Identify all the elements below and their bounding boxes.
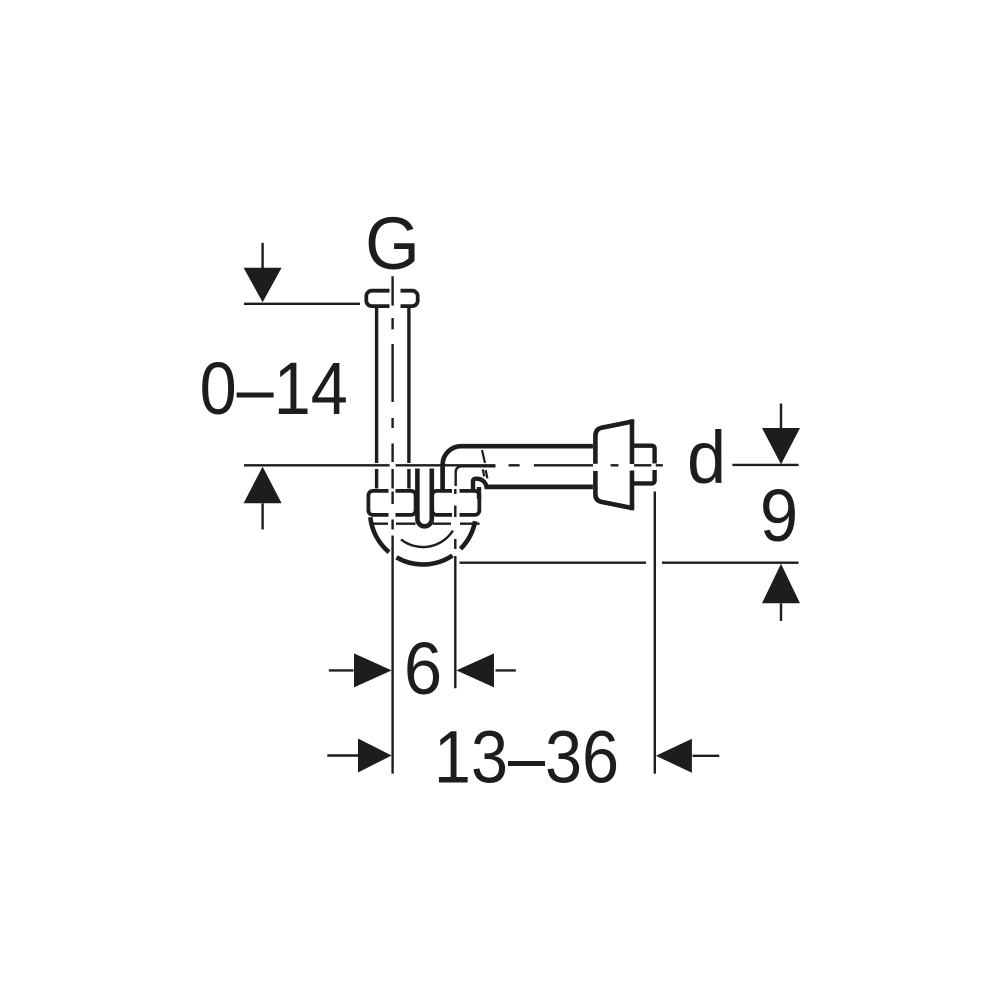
- wall pipe stub: [632, 446, 655, 484]
- vertical extension line outlet: [454, 489, 456, 688]
- dimension 13-36 arrows: [327, 754, 359, 756]
- dimension line d: [732, 464, 798, 466]
- dimension 6 arrows: [329, 669, 354, 671]
- trap bowl outer arc: [370, 517, 475, 564]
- pipe cap flange: [366, 291, 417, 306]
- svg-text:9: 9: [760, 475, 798, 558]
- white gaps at line crossings: [389, 287, 658, 522]
- arrow up left: [261, 504, 263, 530]
- elbow inner wall: [456, 466, 496, 489]
- slanted centerline outlet stub: [482, 450, 487, 478]
- dimension line 9 bottom: [460, 562, 799, 564]
- trap bowl inner arc: [401, 531, 453, 547]
- elbow outer wall: [443, 446, 593, 489]
- svg-text:13–36: 13–36: [434, 715, 619, 798]
- svg-text:0–14: 0–14: [200, 347, 348, 430]
- outlet pipe bottom wall: [485, 485, 593, 490]
- arrow down right: [780, 404, 782, 429]
- outlet step: [473, 479, 478, 491]
- arrow down top-left: [261, 243, 263, 268]
- inlet pipe wall right: [407, 308, 410, 489]
- vertical centerline inlet: [391, 276, 393, 773]
- svg-text:6: 6: [404, 628, 442, 711]
- trap nut left: [368, 491, 415, 515]
- trap partition tube with U bend: [417, 469, 431, 527]
- trap nut right: [432, 491, 479, 515]
- svg-text:d: d: [687, 417, 726, 499]
- arrow up right: [780, 604, 782, 622]
- wall cone rosette: [595, 422, 632, 508]
- inlet pipe wall left: [375, 308, 378, 489]
- dimension line 0-14 top: [244, 303, 360, 305]
- svg-text:G: G: [365, 203, 420, 285]
- nut underlines: [371, 523, 480, 525]
- vertical extension line wall stub: [654, 492, 656, 774]
- horizontal centerline: [244, 464, 663, 466]
